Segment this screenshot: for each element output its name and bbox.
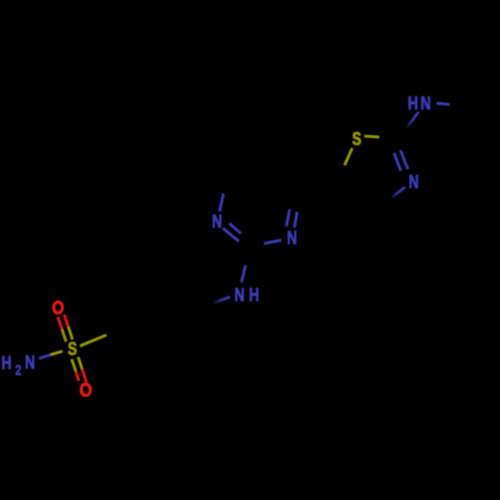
bond C(phenyl)-NH blue half bbox=[214, 297, 231, 303]
svg-text:2: 2 bbox=[15, 361, 21, 378]
S=O bottom double bond line A yellow half bbox=[72, 359, 76, 371]
sulfonamide amine label H2N bbox=[1, 353, 35, 379]
N1=C2 double bond main line blue half bbox=[223, 228, 239, 241]
N1=C2 double bond inner line blue half bbox=[229, 224, 241, 234]
N3=C4 double bond main line blue half bbox=[294, 212, 297, 228]
S=O top double bond line A yellow half bbox=[62, 329, 66, 341]
bond S-C(phenyl) yellow half bbox=[80, 335, 107, 346]
C2=N3 thiazole double bond inner line blue half bbox=[394, 153, 401, 171]
svg-text:N: N bbox=[420, 93, 430, 114]
bond N-S : yellow half bbox=[51, 351, 63, 355]
svg-text:N: N bbox=[25, 353, 35, 373]
S=O bottom double bond line A red half bbox=[76, 371, 79, 381]
bond C2-NH blue half bbox=[407, 112, 419, 128]
svg-text:H: H bbox=[408, 93, 418, 114]
bond N3-C4 thiazole blue half bbox=[392, 187, 405, 197]
aniline NH label bbox=[234, 285, 259, 305]
bond S-C2(thiazole) yellow half bbox=[364, 136, 379, 137]
S=O top double bond line B yellow half bbox=[68, 327, 72, 339]
S=O bottom double bond line B red half bbox=[82, 369, 86, 383]
svg-text:N: N bbox=[409, 172, 419, 192]
svg-text:S: S bbox=[352, 129, 361, 149]
bond S-C5(thiazole) yellow half bbox=[345, 148, 353, 165]
svg-text:N: N bbox=[234, 285, 244, 305]
S=O top double bond line A red half bbox=[58, 317, 62, 329]
bond N-S : blue half bbox=[39, 355, 51, 359]
svg-text:H: H bbox=[249, 285, 259, 305]
bond N1-C6 blue half bbox=[220, 194, 224, 212]
svg-text:O: O bbox=[79, 379, 92, 401]
svg-text:S: S bbox=[68, 339, 77, 359]
bond C2-N3 blue half bbox=[264, 240, 281, 244]
bond NH-CH3 blue half bbox=[437, 103, 450, 104]
S=O bottom double bond line B yellow half bbox=[78, 357, 82, 369]
S=O top double bond line B red half bbox=[64, 315, 68, 327]
bond NH-C2(pyrimidine) blue half bbox=[241, 265, 245, 282]
svg-text:O: O bbox=[52, 298, 64, 319]
svg-text:N: N bbox=[287, 228, 297, 248]
svg-text:N: N bbox=[212, 212, 222, 232]
C2=N3 thiazole double bond main line blue half bbox=[400, 150, 408, 169]
N3=C4 double bond inner line blue half bbox=[286, 210, 289, 227]
svg-text:H: H bbox=[1, 353, 11, 373]
thiazole amino HN label bbox=[408, 93, 431, 114]
